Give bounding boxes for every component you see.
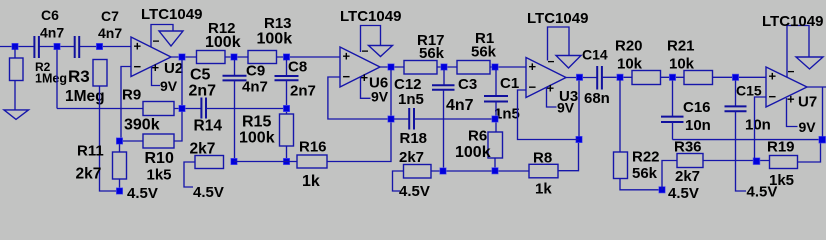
capacitor C1 [484,75,520,123]
wire R21 to U7 [713,76,767,78]
capacitor C14 [582,47,610,108]
svg-text:1n5: 1n5 [398,91,424,108]
wire R10 line [123,112,182,141]
wire U7 minus input drop [755,97,767,158]
node J17 [492,64,498,70]
node J4 U2 output node [179,105,185,111]
node J8 [231,54,237,60]
svg-text:R3: R3 [68,67,90,86]
svg-text:R19: R19 [767,139,795,156]
wire output feedback line y139.5 [673,139,822,141]
power flag U2 V- [151,25,183,49]
wire U3 output [566,77,597,79]
wire J8 drop [234,60,236,76]
svg-text:9V: 9V [160,78,178,94]
svg-text:+: + [787,92,795,107]
node J11 R14 junction [231,158,237,164]
svg-text:100k: 100k [455,144,491,161]
svg-text:4.5V: 4.5V [399,183,430,200]
svg-text:C1: C1 [500,75,519,92]
wire U7 output [807,87,826,136]
svg-text:R13: R13 [264,15,292,32]
svg-text:R20: R20 [615,38,643,55]
capacitor C7 [75,8,123,58]
svg-text:1k: 1k [535,181,552,198]
svg-text:R11: R11 [77,143,104,160]
svg-text:R10: R10 [145,150,174,167]
node J25 [753,158,760,165]
wire J19 up to U3 out [578,80,580,136]
svg-text:1Meg: 1Meg [35,72,67,86]
wire J9 drop [286,60,288,76]
svg-text:4n7: 4n7 [446,97,474,114]
wire C16 bottom [672,122,674,140]
svg-text:−: − [362,44,369,58]
wire R20 to R21 [661,76,685,78]
svg-text:10n: 10n [685,117,711,134]
svg-text:56k: 56k [632,165,658,182]
wire U3 supply stub 9V [547,88,557,108]
wire U3 minus feedback line [518,90,579,140]
svg-text:C6: C6 [41,7,59,23]
node J19 [576,136,582,142]
wire R13 to J9 [277,56,341,58]
resistor R19 [767,139,798,190]
svg-text:LTC1049: LTC1049 [340,8,401,25]
resistor R36 [674,139,703,186]
svg-text:−: − [529,80,537,95]
wire R22 bottom rail [620,179,662,190]
capacitor C6 [34,7,64,58]
svg-text:−: − [788,65,795,79]
power flag U6 V- [361,26,393,59]
svg-text:LTC1049: LTC1049 [527,10,588,27]
capacitor C5 [189,67,217,119]
wire C14 to R20 [602,76,632,78]
resistor R13 [248,15,292,64]
wire U7 supply stub 9V [787,98,798,127]
wire 161 line left part [234,161,297,163]
svg-text:390k: 390k [124,116,160,133]
node J1 input junction [12,43,18,49]
wire R18 left lead to 4.5V stub [393,171,404,191]
svg-text:2k7: 2k7 [399,149,424,166]
svg-text:C8: C8 [288,59,307,76]
svg-text:+: + [361,70,369,85]
svg-text:U7: U7 [798,94,817,111]
svg-text:R16: R16 [299,139,327,156]
resistor R15 [239,114,294,147]
wire R3 bottom lead to 4.5V rail [100,86,117,191]
capacitor C16 [661,99,711,134]
wire C15 top [735,81,737,107]
svg-text:2k7: 2k7 [190,141,216,158]
wire C8 bottom [286,80,288,114]
svg-text:+: + [152,60,160,75]
wire R11 bottom lead [119,179,121,191]
svg-text:9V: 9V [371,89,389,105]
svg-text:R15: R15 [242,114,271,131]
svg-text:+: + [529,59,537,74]
svg-text:R18: R18 [400,130,428,147]
wire R2 top lead [14,47,16,59]
svg-text:2k7: 2k7 [76,165,102,182]
wire R14 left lead to 4.5V stub [184,162,195,187]
node J6 [116,188,122,194]
svg-text:56k: 56k [471,44,497,61]
node J26 output node [819,136,826,143]
node J13 U6 out [388,64,394,70]
resistor R20 [615,38,661,85]
wire R36 right to J25 [703,160,770,162]
power flag U7 V- [787,26,823,79]
svg-text:100k: 100k [205,34,241,51]
wire U2 minus input [121,67,131,142]
svg-text:+: + [343,49,351,64]
svg-text:1Meg: 1Meg [65,88,105,105]
wire C9 bottom through J4 line down to 161 line [234,80,236,161]
opamp U7 [766,67,817,111]
resistor R12 [197,20,241,64]
wire 171 line [431,170,529,172]
resistor R2 [10,58,67,86]
svg-text:R6: R6 [468,128,487,145]
svg-text:R21: R21 [667,38,695,55]
resistor R22 [614,149,660,183]
resistor R18 [399,130,431,178]
node J2 [54,43,60,49]
resistor R9 [122,87,174,134]
svg-text:R14: R14 [194,118,223,135]
wire C1 bottom [495,102,497,133]
node J15 [441,64,447,70]
wire U6 minus input [328,77,388,119]
wire J21 drop R22 top [619,80,621,152]
wire U6 supply stub 9V [361,77,371,98]
node J21 [617,74,623,80]
resistor R11 [76,143,127,183]
svg-text:R22: R22 [632,149,660,166]
svg-text:−: − [548,55,555,69]
wire U2 output [171,56,197,58]
wire R16 right to U6 node elbow [327,122,391,162]
svg-text:R8: R8 [533,150,552,167]
wire R6 bottom [494,158,496,171]
svg-text:68n: 68n [584,90,610,107]
wire C12 line [394,118,495,120]
svg-text:9V: 9V [799,119,817,135]
wire J22 drop C16 top [672,81,674,117]
resistor R6 [455,128,503,162]
node J18 [492,168,498,174]
resistor R14 [190,118,224,169]
capacitor C12 [394,76,424,130]
wire C5 right across to R15 top node [206,108,283,110]
power flag U3 V- [548,27,582,69]
wire C3 bottom to 171 line [443,90,445,171]
capacitor C3 [432,76,477,114]
wire feedback line y108 [57,108,201,110]
wire C15 bottom to 4.5V [736,111,747,191]
node J20 U3 out [576,74,582,80]
svg-text:LTC1049: LTC1049 [141,6,202,23]
svg-text:10n: 10n [745,117,771,134]
capacitor C9 [223,63,268,96]
svg-text:C5: C5 [190,67,211,84]
svg-text:2n7: 2n7 [290,83,316,100]
svg-text:C16: C16 [683,99,711,116]
wire R36 left lead [662,161,677,190]
svg-text:U2: U2 [164,60,183,77]
svg-text:+: + [134,39,142,54]
svg-text:9V: 9V [557,100,575,116]
svg-text:−: − [134,59,142,74]
svg-text:C9: C9 [246,63,265,80]
svg-text:C15: C15 [736,83,762,99]
resistor R1 [457,30,497,74]
svg-text:C14: C14 [582,47,608,63]
svg-text:1k: 1k [302,173,320,190]
svg-text:+: + [547,81,555,96]
wire U6 output [380,66,404,68]
svg-text:10k: 10k [669,56,695,73]
svg-text:4.5V: 4.5V [193,184,224,201]
opamp U3 [526,58,578,106]
svg-text:2k7: 2k7 [675,168,700,185]
wire U6 out drop [390,70,392,116]
resistor R10 [143,134,174,184]
node J12 [388,116,394,122]
svg-text:4.5V: 4.5V [127,185,158,202]
svg-text:+: + [769,69,777,84]
svg-text:−: − [153,34,160,48]
wire R17 to J15 [437,66,457,68]
svg-text:R36: R36 [674,139,702,156]
wire R19 right elbow up [798,140,821,162]
svg-text:−: − [343,69,351,84]
wire input rail [0,46,131,48]
wire R2 bottom lead [14,81,16,111]
resistor R16 [297,139,327,191]
node J7 [179,54,185,60]
svg-text:56k: 56k [419,45,445,62]
svg-text:4n7: 4n7 [40,25,64,41]
wire R8 right elbow up to J19 [558,140,579,171]
wire U2 supply stub 9V [152,67,161,86]
node J14 [492,116,498,122]
svg-text:1k5: 1k5 [147,167,172,184]
node J22 [669,74,675,80]
resistor R17 [404,32,445,74]
svg-text:C7: C7 [101,8,119,24]
wire J7 drop to J4 [181,60,183,105]
wire R1 to U3 [490,66,526,68]
resistor R21 [667,38,713,85]
svg-text:−: − [769,89,777,104]
svg-text:R9: R9 [122,87,141,104]
svg-text:4n7: 4n7 [242,79,268,96]
wire R15 bottom [286,146,288,162]
svg-text:C3: C3 [458,76,477,93]
svg-text:100k: 100k [239,130,275,147]
node J5 [116,138,122,144]
svg-text:LTC1049: LTC1049 [762,13,823,30]
resistor R3 [65,60,107,105]
opamp U6 [340,47,388,92]
svg-text:4n7: 4n7 [98,25,122,41]
svg-text:2n7: 2n7 [189,83,217,100]
svg-text:4.5V: 4.5V [668,185,699,202]
node J16 [440,168,446,174]
node J24 [659,187,665,193]
wire R12 to J8 [225,56,248,58]
wire J15 drop [443,70,445,85]
node J3 [96,43,102,49]
node J23 C15 tap [732,74,738,80]
wire J17 drop [495,70,497,96]
node J9 [283,54,289,60]
svg-text:10k: 10k [617,56,643,73]
node J10 [283,105,289,111]
ground [4,110,29,120]
resistor R8 [529,150,558,198]
wire J2 drop [56,50,58,109]
wire R11 top lead [119,144,121,152]
node R15 bottom junction [283,158,289,164]
capacitor C8 [275,59,316,100]
capacitor C15 [725,83,771,134]
svg-text:100k: 100k [257,31,293,48]
svg-text:1k5: 1k5 [769,172,794,189]
opamp U2 [131,37,183,77]
